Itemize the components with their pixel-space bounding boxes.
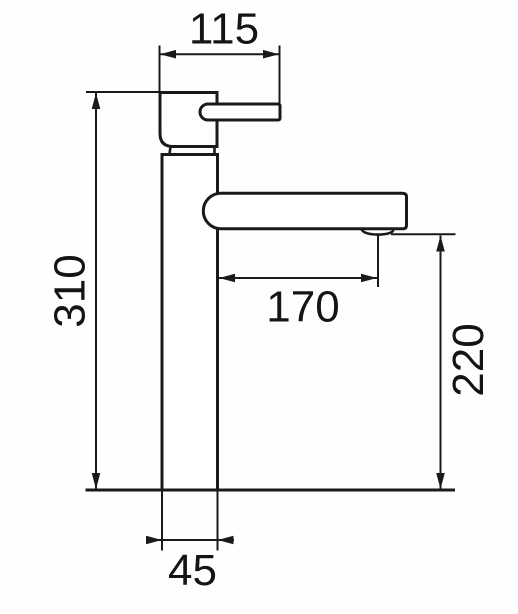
dimension 115 extension line left <box>159 46 161 92</box>
dimension 115 extension line right <box>279 46 281 104</box>
dimension 45 extension line left <box>161 490 163 551</box>
dimension 45 arrow left (outside) <box>146 536 162 545</box>
dimension 310 top extension line <box>86 91 160 93</box>
svg-text:170: 170 <box>266 283 339 332</box>
dimension 220 line <box>440 236 442 490</box>
dimension 170 arrow right <box>361 274 377 283</box>
dimension 170 arrow left <box>219 274 235 283</box>
collar between head and column <box>170 147 215 154</box>
faucet head (cartridge body) <box>160 93 217 147</box>
dimension 115 arrow left <box>160 50 176 59</box>
spout <box>203 193 406 228</box>
dimension 310 line <box>95 93 97 489</box>
svg-text:310: 310 <box>46 254 95 327</box>
svg-text:115: 115 <box>189 5 259 54</box>
svg-text:45: 45 <box>168 546 217 595</box>
dimension 45 line <box>146 539 234 541</box>
dimension 220 arrow bottom <box>436 473 445 489</box>
dimension 45 arrow right (outside) <box>218 536 234 545</box>
dimension 45 extension line right <box>217 490 219 551</box>
dimension 310 arrow bottom <box>92 473 101 489</box>
svg-text:220: 220 <box>444 323 493 396</box>
aerator under spout tip <box>362 229 394 234</box>
dimension 170 extension line right <box>377 235 379 288</box>
dimension 310 arrow top <box>92 93 101 109</box>
dimension 220 top extension line <box>391 233 456 235</box>
dimension 115 arrow right <box>263 50 279 59</box>
dimension 220 arrow top <box>436 236 445 252</box>
dimension 170 line <box>219 277 377 279</box>
mounting surface baseline <box>86 489 456 492</box>
handle lever <box>200 104 280 120</box>
dimension 115 line <box>160 53 279 55</box>
faucet column (body riser) <box>162 155 218 491</box>
